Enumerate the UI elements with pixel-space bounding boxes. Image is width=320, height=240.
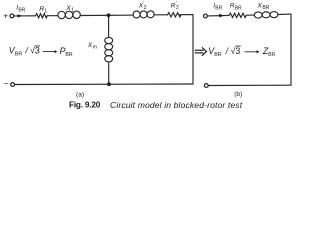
arrow in right formula [245, 50, 259, 53]
svg-text:√3: √3 [30, 46, 40, 56]
svg-text:/: / [225, 46, 230, 56]
svg-text:2: 2 [144, 5, 147, 11]
svg-text:1: 1 [71, 7, 74, 13]
implies double arrow [195, 48, 206, 56]
svg-text:Circuit model in blocked-rotor: Circuit model in blocked-rotor test [110, 100, 243, 110]
current arrowhead I_BR (a) [18, 14, 23, 17]
wire Xm coil to bottom rail [108, 62, 110, 84]
wire X1 to X2' through node [80, 14, 133, 16]
svg-text:BR: BR [268, 52, 275, 58]
svg-text:√3: √3 [231, 46, 241, 56]
svg-text:Fig. 9.20: Fig. 9.20 [69, 101, 101, 110]
formula V_BR/sqrt3 -> Z_BR [208, 46, 275, 58]
sqrt overline left [35, 45, 40, 47]
svg-text:BR: BR [214, 52, 222, 58]
bottom rail (b) [208, 84, 291, 86]
caption Fig. 9.20 [69, 101, 101, 110]
svg-text:/: / [24, 46, 29, 56]
input terminal top (b) [204, 14, 208, 18]
label (b) [234, 91, 242, 98]
caption title [110, 100, 243, 110]
wire X2' to R2' [154, 14, 167, 16]
wire R_BR to X_BR [246, 14, 254, 16]
svg-text:BR: BR [65, 52, 73, 58]
label I_BR (b) [213, 3, 222, 12]
wire R2' to right corner (a) [180, 15, 194, 84]
resistor R1 [36, 14, 48, 18]
inductor X1 [58, 11, 80, 19]
label X_BR [256, 2, 269, 11]
formula V_BR/sqrt3 -> P_BR [9, 46, 73, 58]
svg-text:+: + [3, 11, 8, 21]
label X1 [65, 5, 74, 13]
label Xm [87, 42, 97, 50]
svg-text:BR: BR [18, 7, 25, 13]
label R2' [171, 1, 179, 11]
label R_BR [230, 3, 242, 12]
label R1 [39, 6, 47, 14]
wire R1 to X1 [47, 15, 58, 17]
arrow in left formula [43, 50, 57, 53]
wire terminal to R1 (a) [14, 15, 36, 17]
minus sign (a) [4, 78, 9, 88]
svg-text:(b): (b) [234, 91, 242, 98]
svg-text:1: 1 [44, 9, 47, 15]
plus sign (a) [3, 11, 8, 21]
wire X_BR to right corner (b) [278, 14, 291, 85]
top rail wire (b) [207, 14, 229, 17]
label I_BR (a) [16, 5, 25, 14]
svg-text:BR: BR [15, 52, 23, 58]
svg-text:−: − [4, 78, 9, 88]
inductor X_BR [254, 12, 278, 18]
svg-text:2: 2 [176, 5, 179, 11]
svg-text:BR: BR [262, 5, 269, 11]
label X2' [138, 1, 147, 11]
sqrt overline right [236, 45, 241, 47]
bottom rail (a) [15, 83, 193, 86]
svg-text:(a): (a) [76, 92, 84, 99]
inductor Xm (magnetizing branch) [105, 37, 113, 62]
input terminal top (a) [10, 14, 14, 18]
svg-text:BR: BR [235, 5, 242, 11]
wire node to Xm coil [108, 15, 110, 37]
resistor R_BR [229, 13, 246, 17]
label (a) [76, 92, 84, 99]
resistor R2' [168, 13, 182, 17]
input terminal bottom (b) [204, 84, 208, 88]
input terminal bottom (a) [11, 83, 15, 87]
svg-text:BR: BR [215, 5, 222, 11]
inductor X2' [133, 11, 154, 18]
svg-text:m: m [93, 45, 97, 51]
junction node bottom [107, 82, 111, 86]
current arrowhead I_BR (b) [219, 14, 224, 18]
junction node top [107, 13, 111, 17]
